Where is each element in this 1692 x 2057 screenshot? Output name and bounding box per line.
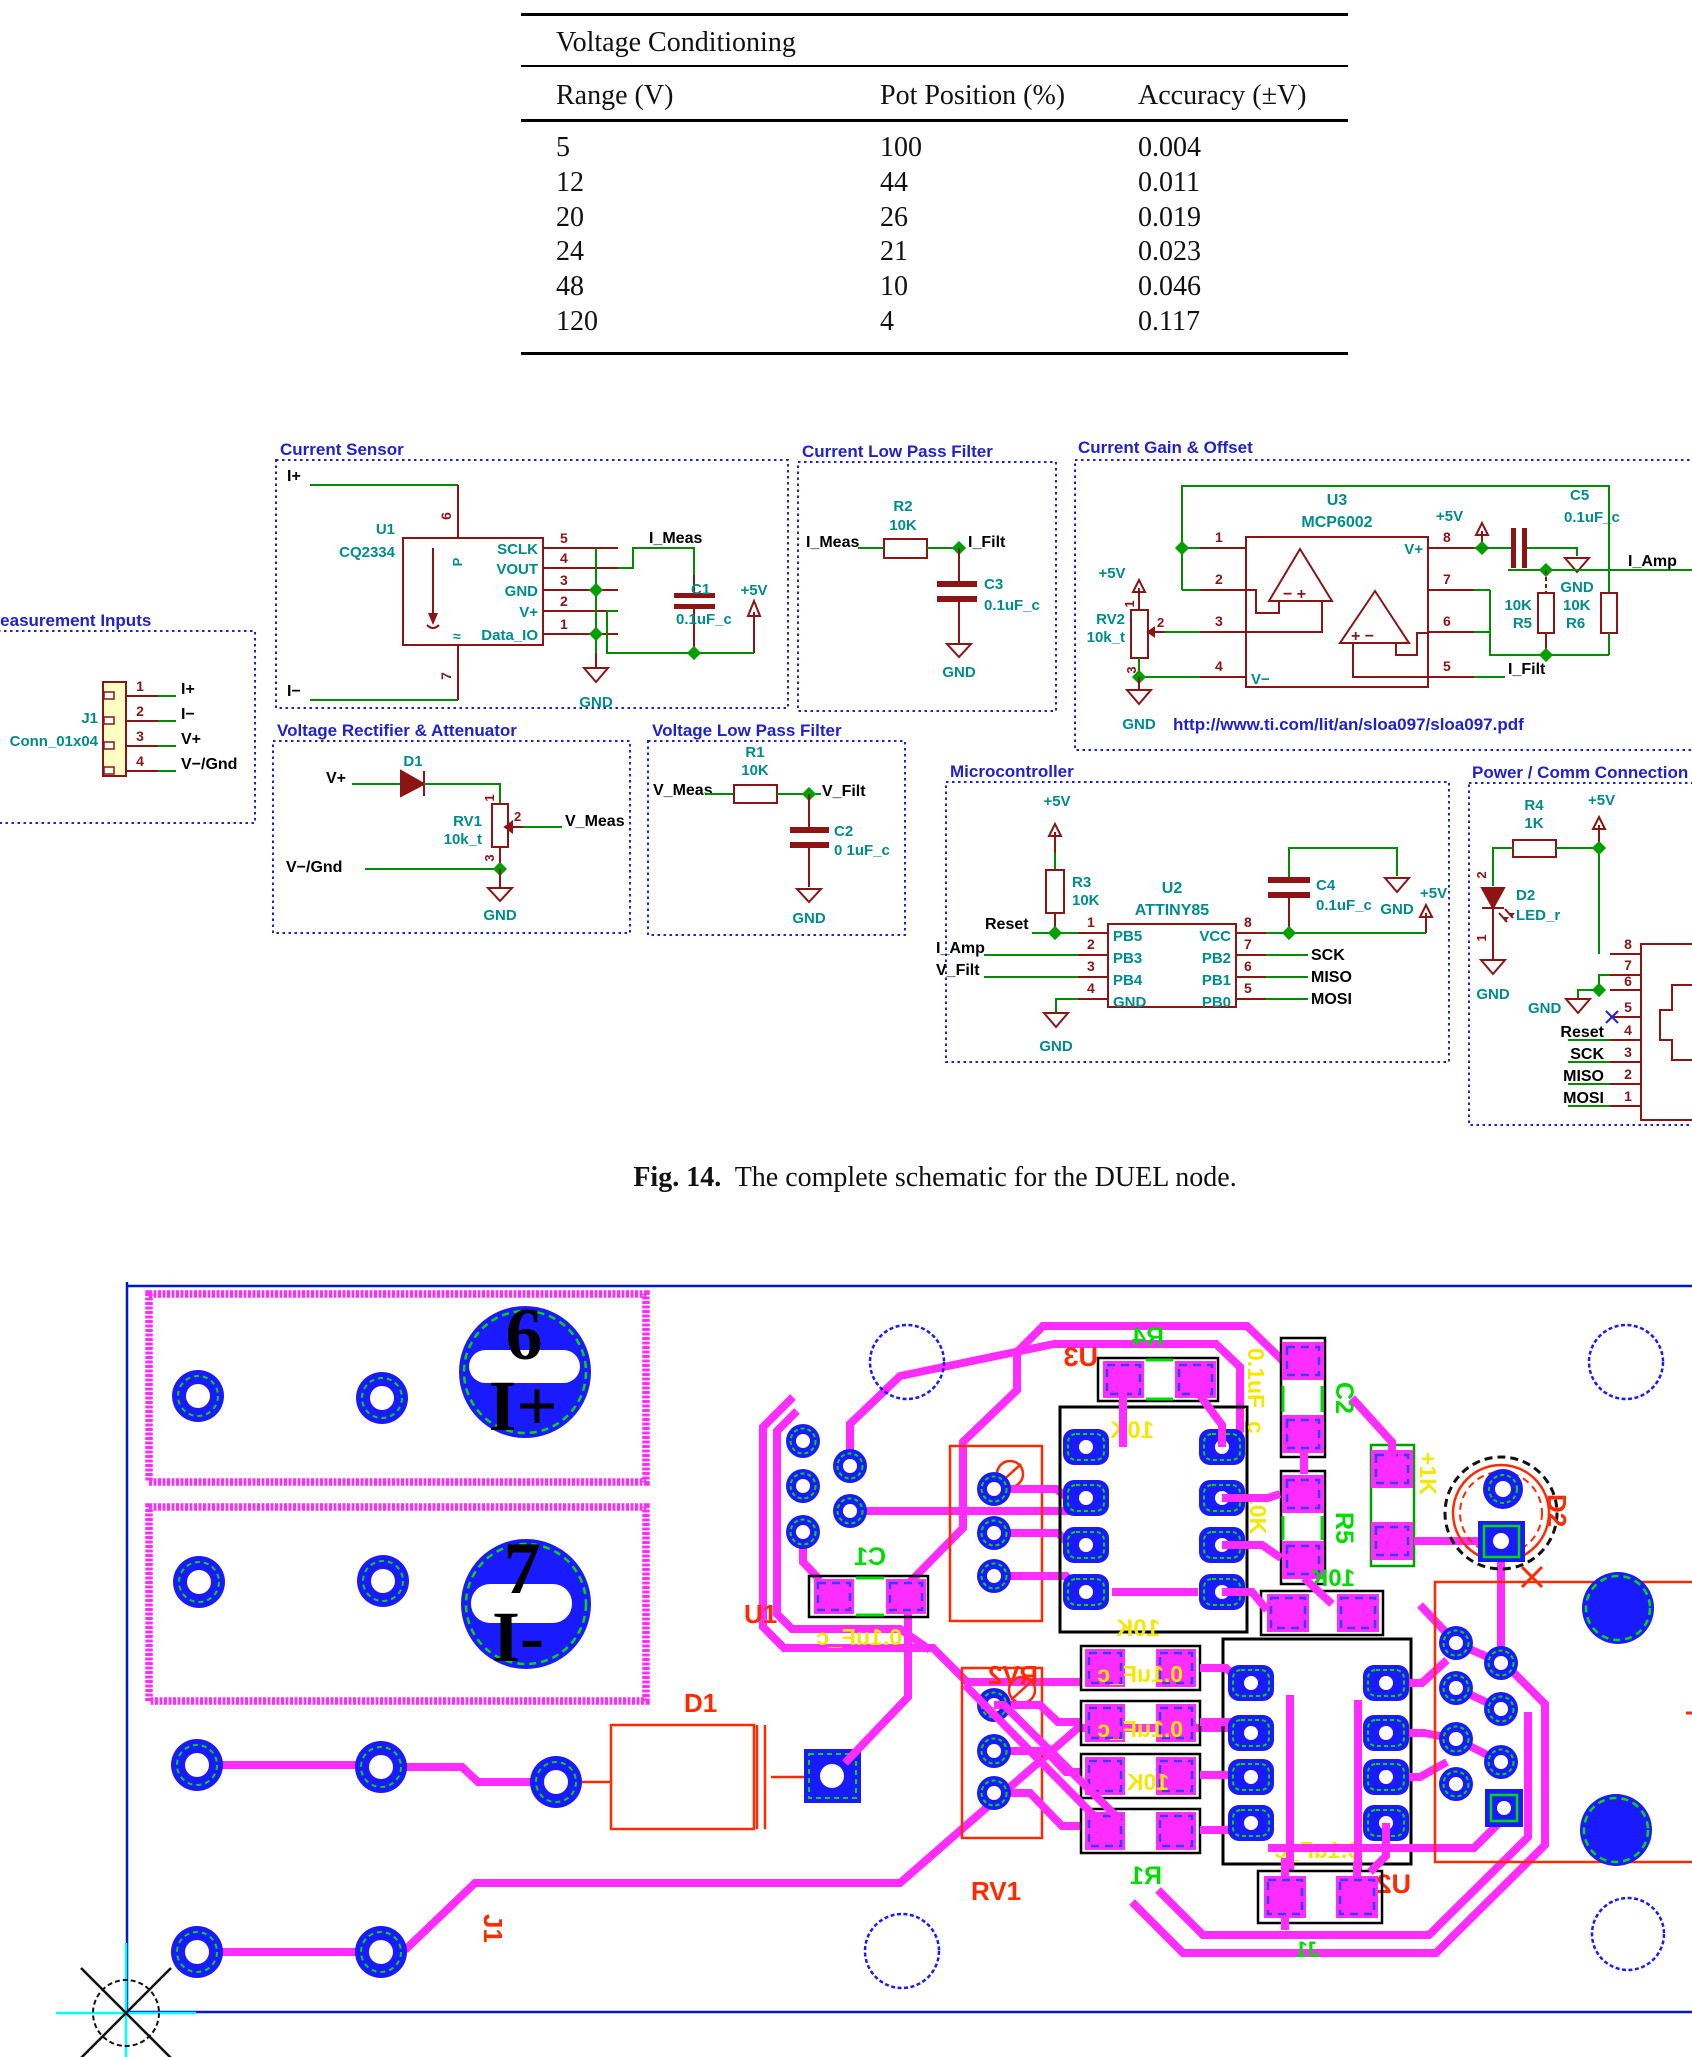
junction	[802, 787, 816, 801]
svg-text:Current Low Pass Filter: Current Low Pass Filter	[802, 442, 993, 461]
svg-text:C1: C1	[854, 1543, 886, 1571]
svg-text:10K: 10K	[1126, 1769, 1169, 1795]
svg-text:0.1uF_c: 0.1uF_c	[676, 611, 732, 628]
svg-text:− +: − +	[1283, 586, 1306, 603]
trace	[198, 1761, 381, 1769]
junction	[1539, 563, 1553, 577]
wire VOUT to I_Meas	[618, 548, 694, 575]
svg-text:GND: GND	[1528, 1000, 1562, 1017]
ground	[1138, 677, 1140, 690]
pad	[357, 1555, 409, 1607]
IC U2 footprint	[1223, 1639, 1411, 1864]
svg-text:1: 1	[1624, 1088, 1632, 1104]
resistor R4 footprint (top)	[1098, 1358, 1218, 1401]
svg-text:4: 4	[1087, 980, 1095, 996]
svg-text:Measurement Inputs: Measurement Inputs	[0, 611, 151, 630]
section box Power / Comm Connection	[1469, 783, 1692, 1125]
svg-text:0.1uF_c: 0.1uF_c	[816, 1624, 902, 1650]
pin 3 GND	[543, 589, 618, 591]
trace RV2-U3	[994, 1489, 1090, 1590]
trace big wrap right pair	[1132, 1667, 1545, 1953]
svg-text:ATTINY85: ATTINY85	[1135, 902, 1209, 919]
trace D2 down	[1497, 1562, 1505, 1663]
svg-text:V+: V+	[519, 604, 538, 621]
svg-text:GND: GND	[1380, 901, 1414, 918]
filled hole pads right	[1582, 1572, 1654, 1644]
svg-text:R5: R5	[1330, 1512, 1358, 1544]
svg-text:PB4: PB4	[1113, 972, 1143, 989]
svg-text:10K: 10K	[889, 517, 917, 534]
svg-text:LED_r: LED_r	[1516, 907, 1560, 924]
svg-text:SCK: SCK	[1311, 947, 1345, 964]
svg-text:U3: U3	[1327, 492, 1348, 509]
wire	[1032, 932, 1078, 934]
wire	[984, 954, 1078, 956]
svg-text:GND: GND	[483, 907, 517, 924]
wire V-/Gnd	[158, 770, 176, 772]
svg-text:1K: 1K	[1524, 815, 1543, 832]
svg-text:Voltage Rectifier & Attenuator: Voltage Rectifier & Attenuator	[277, 721, 517, 740]
svg-text:2: 2	[514, 809, 521, 824]
wire	[984, 976, 1078, 978]
trace RV1 links	[994, 1705, 1081, 1826]
svg-text:U1: U1	[376, 521, 395, 538]
pin 2 PB3	[1078, 954, 1108, 956]
wire pin1	[1182, 547, 1200, 549]
svg-text:+5V: +5V	[1420, 885, 1447, 902]
pin 6	[1610, 989, 1641, 991]
svg-text:GND: GND	[792, 910, 826, 927]
trace diagonals RV1 to U2	[965, 1685, 1120, 1832]
wire I- to pin7	[310, 699, 458, 701]
capacitor C1	[693, 575, 695, 595]
pin 3 PB4	[1078, 976, 1108, 978]
svg-text:3: 3	[560, 572, 568, 588]
ground	[1385, 878, 1409, 892]
pin 3	[1200, 631, 1246, 633]
pin 7 PB2	[1236, 954, 1266, 956]
svg-text:5: 5	[560, 530, 568, 546]
svg-text:GND: GND	[579, 694, 613, 711]
svg-text:RV2: RV2	[1096, 611, 1125, 628]
pin 4	[1200, 676, 1246, 678]
svg-text:6: 6	[1244, 958, 1252, 974]
svg-text:3: 3	[1087, 958, 1095, 974]
section box Microcontroller	[946, 782, 1449, 1062]
aux origin crosshair	[56, 1943, 196, 2057]
junction	[493, 862, 507, 876]
svg-text:10k_t: 10k_t	[1087, 629, 1125, 646]
svg-text:0.1uF_c: 0.1uF_c	[1564, 509, 1620, 526]
SMD stack row3	[1081, 1754, 1200, 1798]
SMD stack row4	[1081, 1809, 1200, 1853]
svg-text:2: 2	[1624, 1066, 1632, 1082]
svg-text:Power / Comm Connection: Power / Comm Connection	[1472, 763, 1688, 782]
svg-text:I-: I-	[492, 1597, 544, 1677]
wire MOSI	[1266, 998, 1308, 1000]
svg-text:0 1uF_c: 0 1uF_c	[834, 842, 890, 859]
svg-text:J1: J1	[1296, 1937, 1320, 1962]
trace long bottom	[405, 1728, 1245, 1950]
svg-text:7: 7	[1443, 571, 1451, 587]
svg-text:R6: R6	[1566, 615, 1585, 632]
pin 4	[126, 770, 158, 772]
trace U3 row4 link	[1112, 1588, 1198, 1596]
wire	[705, 793, 734, 795]
svg-text:3: 3	[136, 728, 144, 744]
pin 3	[126, 745, 158, 747]
capacitor C1 footprint	[809, 1576, 928, 1617]
pin 5 no-connect	[1610, 1016, 1641, 1018]
svg-text:MISO: MISO	[1563, 1068, 1604, 1085]
pad D1 square	[804, 1749, 861, 1803]
svg-text:V+: V+	[181, 731, 201, 748]
svg-text:GND: GND	[942, 664, 976, 681]
svg-text:CQ2334: CQ2334	[339, 544, 396, 561]
red tick right edge	[1686, 1712, 1692, 1715]
pin 6	[457, 485, 459, 538]
svg-text:+1K: +1K	[1415, 1452, 1441, 1495]
trace cluster links	[1420, 1605, 1501, 1762]
wire V_Meas	[523, 826, 562, 828]
IC U2	[1108, 924, 1236, 1007]
pin 1 Data_IO	[543, 633, 618, 635]
svg-text:+5V: +5V	[1588, 792, 1615, 809]
resistor R2	[884, 539, 927, 558]
svg-text:GND: GND	[1476, 986, 1510, 1003]
diode D1	[401, 771, 424, 796]
IC U3 footprint	[1060, 1407, 1247, 1632]
wire pin2	[1182, 589, 1200, 591]
svg-text:V_Filt: V_Filt	[936, 962, 980, 979]
svg-text:I+: I+	[287, 468, 301, 485]
svg-text:GND: GND	[1039, 1038, 1073, 1055]
SMD stack row1	[1081, 1646, 1200, 1690]
svg-text:V_Filt: V_Filt	[822, 783, 866, 800]
LED D2 footprint	[1445, 1457, 1557, 1569]
svg-text:5: 5	[1244, 980, 1252, 996]
power +5V	[753, 612, 755, 653]
wire RV2 wiper to pin3	[1165, 631, 1200, 633]
junction	[589, 627, 603, 641]
svg-text:D1: D1	[403, 753, 422, 770]
svg-text:PB2: PB2	[1202, 950, 1231, 967]
svg-text:V_Meas: V_Meas	[565, 813, 625, 830]
svg-text:Current Sensor: Current Sensor	[280, 440, 404, 459]
resistor R1	[734, 785, 777, 803]
wire I+ to pin6	[310, 484, 458, 486]
pin 2	[126, 720, 158, 722]
svg-text:4: 4	[136, 753, 144, 769]
trace cluster to C1	[803, 1532, 820, 1580]
trace cluster h	[850, 1507, 1086, 1515]
svg-text:I_Filt: I_Filt	[968, 534, 1006, 551]
LED D2	[1482, 888, 1504, 908]
pin 2 V+	[543, 610, 618, 612]
junction	[1592, 841, 1606, 855]
svg-text:8: 8	[1443, 529, 1451, 545]
svg-text:GND: GND	[505, 583, 539, 600]
svg-text:D1: D1	[684, 1688, 717, 1718]
svg-text:5: 5	[1443, 658, 1451, 674]
svg-text:I+: I+	[488, 1366, 557, 1446]
capacitor C3	[958, 548, 960, 581]
svg-text:R2: R2	[893, 498, 912, 515]
section box Current Gain & Offset	[1075, 460, 1692, 750]
wire pin8 to C5	[1474, 547, 1513, 549]
svg-text:10K: 10K	[741, 762, 769, 779]
svg-text:R1: R1	[745, 744, 764, 761]
trace inner bundle	[850, 1344, 1240, 1466]
svg-text:1: 1	[1122, 600, 1137, 607]
svg-text:6: 6	[1443, 613, 1451, 629]
svg-text:GND: GND	[1122, 716, 1156, 733]
svg-text:2: 2	[1087, 936, 1095, 952]
svg-text:U1: U1	[744, 1599, 777, 1629]
junction	[1592, 983, 1606, 997]
ground	[797, 889, 821, 902]
ground	[1565, 558, 1589, 572]
pin 4 GND	[1078, 998, 1108, 1000]
junction	[1475, 541, 1489, 555]
svg-text:10K: 10K	[1115, 1615, 1160, 1642]
svg-text:0.1uF_c: 0.1uF_c	[1097, 1661, 1183, 1687]
ground	[1481, 960, 1505, 974]
svg-text:0.1uF_c: 0.1uF_c	[1097, 1716, 1183, 1742]
capacitor C2	[808, 794, 810, 827]
trace U1 loop inner	[777, 1411, 930, 1650]
wire pin5 I_Filt	[1474, 676, 1505, 678]
capacitor C2 footprint (vertical)	[1281, 1338, 1325, 1457]
svg-text:I_Meas: I_Meas	[806, 534, 859, 551]
ground	[499, 869, 501, 888]
pin 1 PB5	[1078, 932, 1108, 934]
pin 5 SCLK	[543, 547, 618, 549]
ground	[1566, 999, 1590, 1013]
svg-text:1: 1	[1215, 529, 1223, 545]
wire bottom	[1490, 590, 1609, 655]
svg-text:PB0: PB0	[1202, 994, 1231, 1011]
trace J1 row	[198, 1948, 381, 1956]
svg-text:MOSI: MOSI	[1563, 1090, 1604, 1107]
trace R4b links	[1352, 1398, 1478, 1541]
junction	[1132, 670, 1146, 684]
svg-text:1: 1	[1087, 914, 1095, 930]
svg-text:Voltage Low Pass Filter: Voltage Low Pass Filter	[652, 721, 842, 740]
svg-text:+ −: + −	[1351, 628, 1374, 645]
wire top feedback	[1182, 486, 1609, 590]
wire I_Amp rail	[1508, 569, 1692, 571]
resistor R5	[1545, 570, 1547, 593]
svg-text:5: 5	[1624, 999, 1632, 1015]
wire pin7 hook	[1599, 975, 1610, 990]
svg-text:I−: I−	[287, 683, 301, 700]
trace square pad row	[1268, 1818, 1504, 1848]
op-amp A triangle	[1269, 549, 1332, 601]
connector J2 courtyard	[1435, 1582, 1692, 1862]
svg-text:10K: 10K	[1504, 597, 1532, 614]
svg-text:J1: J1	[81, 710, 98, 727]
svg-text:7: 7	[1624, 957, 1632, 973]
wire SCK	[1266, 954, 1308, 956]
wire I+	[158, 695, 176, 697]
svg-text:R5: R5	[1513, 615, 1532, 632]
trace	[381, 1767, 540, 1782]
svg-text:I−: I−	[181, 706, 195, 723]
resistor R4b footprint (right)	[1371, 1445, 1414, 1566]
svg-text:2: 2	[1474, 871, 1489, 878]
svg-text:MCP6002: MCP6002	[1301, 514, 1372, 531]
svg-text:3: 3	[1624, 1044, 1632, 1060]
pad	[172, 1370, 224, 1422]
svg-text:V−: V−	[1251, 671, 1270, 688]
ground	[947, 644, 971, 657]
svg-text:R1: R1	[1130, 1862, 1162, 1890]
svg-text:R3: R3	[1072, 874, 1091, 891]
svg-text:PB5: PB5	[1113, 928, 1142, 945]
svg-text:2: 2	[560, 593, 568, 609]
svg-text:http://www.ti.com/lit/an/sloa0: http://www.ti.com/lit/an/sloa097/sloa097…	[1173, 715, 1524, 734]
connector pin 7 I-	[461, 1528, 591, 1677]
svg-text:V_Meas: V_Meas	[653, 782, 713, 799]
pad V+ row	[171, 1739, 223, 1791]
svg-text:VOUT: VOUT	[496, 561, 538, 578]
svg-text:RV1: RV1	[971, 1876, 1021, 1906]
svg-text:7: 7	[438, 672, 454, 680]
board outline	[127, 1282, 1692, 2012]
pin 8	[1610, 953, 1641, 955]
svg-text:+5V: +5V	[740, 582, 767, 599]
pin 6	[1428, 631, 1474, 633]
svg-text:+5V: +5V	[1436, 508, 1463, 525]
potentiometer RV2 footprint	[950, 1446, 1042, 1621]
svg-text:8: 8	[1244, 914, 1252, 930]
SMD stack row2	[1081, 1701, 1200, 1745]
svg-text:C3: C3	[984, 576, 1003, 593]
svg-text:Reset: Reset	[985, 916, 1029, 933]
svg-text:6: 6	[1624, 973, 1632, 989]
svg-text:PB3: PB3	[1113, 950, 1142, 967]
pin 1 MOSI	[1610, 1105, 1641, 1107]
pin 5 PB0	[1236, 998, 1266, 1000]
wire MISO	[1266, 976, 1308, 978]
ground	[1044, 1013, 1068, 1027]
junction	[1175, 541, 1189, 555]
via cluster U1	[786, 1424, 820, 1458]
section box Measurement Inputs	[0, 631, 255, 823]
svg-text:1: 1	[136, 678, 144, 694]
op-amp U3	[1246, 537, 1428, 687]
wire	[365, 868, 500, 870]
svg-text:I_Amp: I_Amp	[1628, 553, 1677, 570]
pin 2	[1200, 589, 1246, 591]
svg-text:I_Meas: I_Meas	[649, 530, 702, 547]
svg-text:V+: V+	[1404, 541, 1423, 558]
svg-text:1: 1	[482, 794, 497, 801]
svg-text:C1: C1	[691, 581, 710, 598]
capacitor C5	[1511, 528, 1516, 568]
svg-text:MOSI: MOSI	[1311, 991, 1352, 1008]
svg-text:V−/Gnd: V−/Gnd	[181, 756, 237, 773]
wire	[927, 547, 959, 549]
pin 2 MISO	[1610, 1083, 1641, 1085]
svg-text:Microcontroller: Microcontroller	[950, 762, 1074, 781]
trace D1 to top bundle	[845, 1326, 1302, 1763]
op-amp B triangle	[1340, 591, 1409, 643]
wire pin6 to ground	[1578, 990, 1599, 999]
pin 1	[126, 695, 158, 697]
svg-text:MISO: MISO	[1311, 969, 1352, 986]
wire	[777, 793, 821, 795]
potentiometer RV2	[1131, 610, 1148, 658]
svg-text:R4: R4	[1132, 1323, 1164, 1351]
svg-text:≈: ≈	[453, 628, 461, 644]
wire RV2 bottom	[1139, 658, 1200, 677]
trace C2-R5 vertical	[1304, 1452, 1332, 1604]
IC U1	[403, 538, 543, 645]
wire V+ rail	[607, 611, 754, 653]
wire SCLK vertical	[595, 548, 597, 653]
wire	[352, 783, 401, 785]
wire R4 left	[1493, 848, 1513, 886]
svg-text:C2: C2	[834, 823, 853, 840]
resistor R3 footprint (mid)	[1261, 1591, 1383, 1635]
junction	[1048, 926, 1062, 940]
trace U3 to C2 R5	[1222, 1494, 1281, 1610]
svg-text:+5V: +5V	[1043, 793, 1070, 810]
resistor R5 footprint (vertical)	[1281, 1471, 1325, 1584]
pin 7	[1610, 974, 1641, 976]
pin 7	[1428, 589, 1474, 591]
diode D1 outline	[611, 1725, 754, 1829]
resistor R3	[1046, 870, 1064, 913]
svg-text:0.1uF_c: 0.1uF_c	[984, 597, 1040, 614]
svg-text:P: P	[450, 557, 465, 566]
junction	[589, 583, 603, 597]
pin 8 VCC	[1236, 932, 1266, 934]
keepout zone I-	[149, 1507, 646, 1701]
svg-text:6: 6	[438, 512, 454, 520]
resistor R4	[1513, 840, 1556, 857]
svg-text:C5: C5	[1570, 487, 1589, 504]
trace R4 to U3 columns	[1123, 1385, 1222, 1447]
junction	[1539, 648, 1553, 662]
svg-text:PB1: PB1	[1202, 972, 1231, 989]
pad	[356, 1372, 408, 1424]
ISP header pads	[1439, 1626, 1473, 1660]
pin 4 Reset	[1610, 1039, 1641, 1041]
section box Current Sensor	[276, 460, 788, 708]
svg-text:Conn_01x04: Conn_01x04	[10, 733, 99, 750]
wire R4 to +5V	[1556, 848, 1599, 954]
trace stack to U2	[1200, 1668, 1251, 1830]
svg-text:U3: U3	[1063, 1342, 1098, 1372]
potentiometer RV1 footprint	[962, 1668, 1042, 1838]
pin 7	[457, 645, 459, 700]
junction	[687, 646, 701, 660]
svg-text:10K: 10K	[1072, 892, 1100, 909]
svg-text:I_Filt: I_Filt	[1508, 661, 1546, 678]
wire C5 to ground	[1527, 548, 1577, 556]
pin 1	[1200, 547, 1246, 549]
ground	[595, 653, 597, 668]
svg-text:8: 8	[1624, 936, 1632, 952]
mount hole circles	[870, 1325, 944, 1399]
svg-text:2: 2	[1157, 615, 1164, 630]
trace U2 right	[1386, 1660, 1456, 1777]
svg-text:GND: GND	[1113, 994, 1147, 1011]
svg-text:V−/Gnd: V−/Gnd	[286, 859, 342, 876]
